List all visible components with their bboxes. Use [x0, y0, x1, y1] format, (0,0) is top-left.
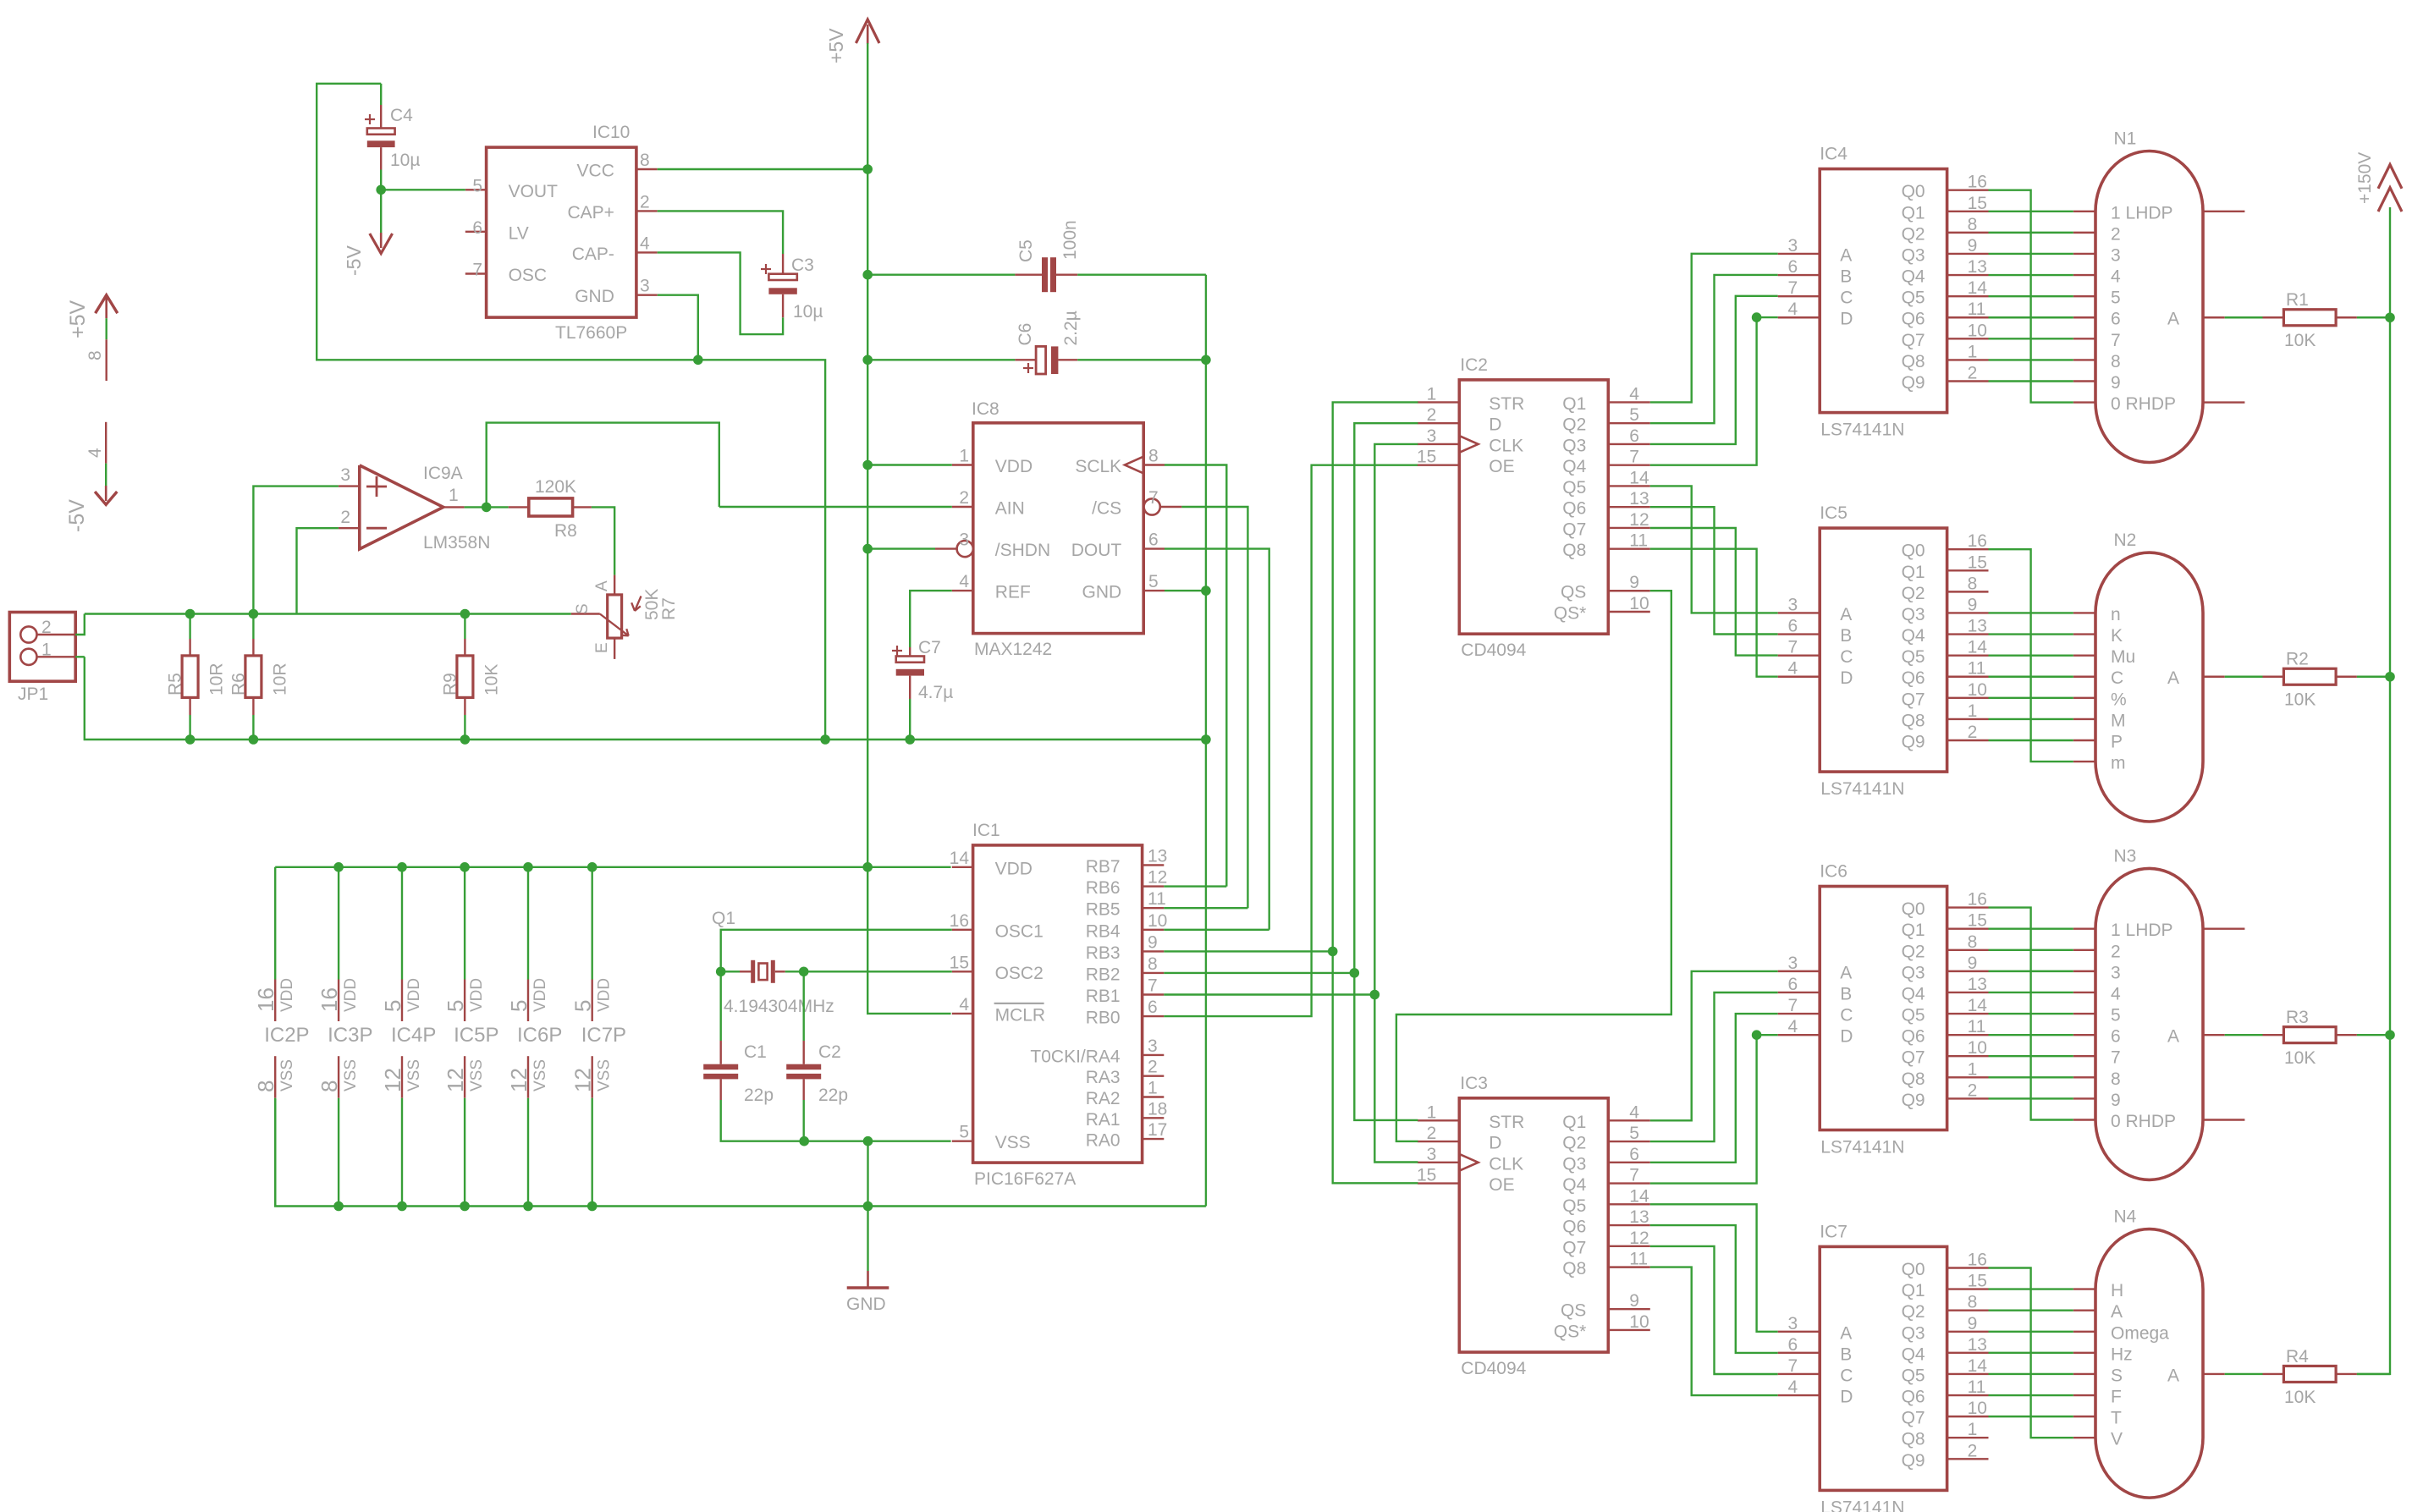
IC1 pin 10 RB4 — [1086, 911, 1168, 942]
IC5 pin 4 D — [1778, 659, 1853, 689]
svg-text:Q2: Q2 — [1562, 415, 1586, 435]
svg-text:Q8: Q8 — [1562, 541, 1586, 560]
svg-text:RB2: RB2 — [1086, 965, 1121, 984]
svg-text:OSC1: OSC1 — [995, 921, 1044, 941]
svg-text:8: 8 — [1968, 1293, 1978, 1312]
wire IC4.Q4 to N1 — [1989, 274, 2073, 276]
N1 pin 9 — [2073, 373, 2121, 393]
node Q1 right — [799, 967, 809, 977]
svg-text:/CS: /CS — [1092, 499, 1121, 519]
svg-text:4: 4 — [959, 572, 969, 591]
IC2 pin 14 Q5 — [1562, 468, 1650, 498]
svg-text:C: C — [1840, 1366, 1853, 1385]
wire IC2.Q8 to IC5.D — [1650, 549, 1778, 677]
wire IC6.Q8 to N3 — [1989, 1076, 2073, 1078]
N3 pin 2 — [2073, 942, 2121, 961]
N2 pin P — [2073, 733, 2123, 752]
node V3/C6 — [1201, 355, 1211, 366]
svg-text:Q5: Q5 — [1902, 1366, 1925, 1385]
svg-text:7: 7 — [1629, 1166, 1639, 1185]
svg-text:A: A — [2111, 1302, 2123, 1322]
svg-text:R3: R3 — [2286, 1008, 2309, 1027]
IC3 pin 11 Q8 — [1562, 1250, 1650, 1279]
svg-text:MCLR: MCLR — [995, 1005, 1046, 1025]
wire JP1 pin1 — [75, 656, 85, 657]
svg-text:E: E — [593, 642, 611, 653]
power symbol IC6P VSS pin 12 — [506, 1056, 549, 1206]
node rail-B/C7 — [905, 734, 915, 745]
svg-text:2: 2 — [1148, 1058, 1158, 1077]
svg-text:1: 1 — [1968, 1059, 1978, 1079]
svg-text:18: 18 — [1148, 1099, 1167, 1119]
resistor R1 10K — [2225, 290, 2390, 350]
svg-text:TL7660P: TL7660P — [555, 323, 627, 343]
wire IC5.Q4 to N2 — [1989, 633, 2073, 635]
node rail1/R6 — [249, 609, 259, 619]
N1 pin 4 — [2073, 267, 2121, 287]
IC6 pin 13 Q4 — [1902, 975, 1989, 1004]
svg-text:3: 3 — [340, 465, 350, 485]
svg-text:D: D — [1840, 310, 1853, 329]
IC1 pin 5 VSS — [952, 1123, 1031, 1153]
svg-text:IC3P: IC3P — [328, 1024, 372, 1047]
IC6 pin 6 B — [1778, 975, 1853, 1004]
svg-text:Q7: Q7 — [1562, 1238, 1586, 1257]
IC4 pin 16 Q0 — [1902, 173, 1989, 202]
svg-text:IC2: IC2 — [1460, 355, 1488, 375]
IC5 pin 2 Q9 — [1902, 723, 1989, 752]
wire +150V vertical — [2357, 207, 2390, 1374]
svg-text:V: V — [2111, 1430, 2123, 1449]
svg-text:11: 11 — [1968, 1377, 1986, 1397]
IC10 pin 5 VOUT — [465, 176, 558, 201]
IC5 pin 13 Q4 — [1902, 617, 1989, 646]
IC6 pin 9 Q3 — [1902, 954, 1989, 983]
IC7 pin 11 Q6 — [1902, 1377, 1989, 1407]
svg-text:13: 13 — [1968, 257, 1987, 277]
node rail-B/R6 — [249, 734, 259, 745]
svg-text:10: 10 — [1968, 321, 1987, 340]
resistor R5 10R — [166, 614, 227, 740]
IC2 pin 15 OE — [1417, 448, 1515, 477]
node VSS rail/IC7P — [587, 1201, 597, 1212]
IC2 pin 9 QS — [1561, 573, 1650, 602]
node RB1/riser — [1370, 990, 1380, 1000]
power symbol IC2P VDD pin 16 — [253, 867, 296, 1021]
node VSS/C2 junction — [799, 1136, 809, 1146]
svg-text:7: 7 — [1629, 448, 1639, 467]
svg-text:13: 13 — [1629, 489, 1649, 509]
IC box IC3 — [1459, 1074, 1608, 1378]
IC5 pin 9 Q3 — [1902, 595, 1989, 624]
IC4 pin 14 Q5 — [1902, 278, 1989, 308]
wire IC6.Q5 to N3 — [1989, 1013, 2073, 1014]
wire IC9A +in — [253, 487, 339, 614]
svg-text:3: 3 — [640, 277, 650, 296]
node VSS/GND-vert junction — [863, 1136, 873, 1146]
svg-text:8: 8 — [640, 151, 650, 170]
svg-text:7: 7 — [472, 261, 482, 280]
svg-text:1: 1 — [41, 640, 52, 659]
svg-text:R8: R8 — [554, 521, 577, 541]
IC6 pin 10 Q7 — [1902, 1038, 1989, 1068]
svg-text:PIC16F627A: PIC16F627A — [974, 1169, 1076, 1189]
wire C5 left — [867, 274, 1015, 276]
svg-text:5: 5 — [2111, 1006, 2121, 1025]
IC7 pin 15 Q1 — [1902, 1272, 1989, 1301]
IC7 pin 13 Q4 — [1902, 1335, 1989, 1365]
svg-text:D: D — [1489, 1134, 1501, 1153]
svg-text:IC3: IC3 — [1460, 1074, 1488, 1093]
wire IC8 DOUT riser — [1165, 549, 1269, 930]
svg-text:RB6: RB6 — [1086, 878, 1121, 898]
wire IC7.Q3 to N4 — [1989, 1331, 2073, 1333]
svg-text:10: 10 — [1968, 680, 1987, 700]
svg-text:16: 16 — [1968, 173, 1987, 192]
resistor R3 10K — [2225, 1008, 2390, 1068]
svg-text:Q0: Q0 — [1902, 1260, 1925, 1279]
svg-text:Q8: Q8 — [1902, 711, 1925, 730]
IC4 pin 1 Q8 — [1902, 342, 1989, 371]
svg-text:Q9: Q9 — [1902, 1451, 1925, 1471]
svg-text:QS: QS — [1561, 1301, 1586, 1321]
node +5V/C5 junction — [862, 270, 873, 280]
capacitor C4 10u — [365, 84, 420, 190]
svg-text:OSC2: OSC2 — [995, 964, 1044, 983]
svg-text:4: 4 — [1788, 300, 1798, 319]
svg-text:RB3: RB3 — [1086, 943, 1121, 963]
svg-text:13: 13 — [1629, 1207, 1649, 1227]
IC box IC6 — [1820, 862, 1947, 1157]
N2 pin M — [2073, 711, 2126, 730]
N3 LHDP right pin — [2203, 927, 2244, 929]
IC6 pin 15 Q1 — [1902, 911, 1989, 941]
svg-text:Q4: Q4 — [1562, 457, 1586, 476]
svg-text:15: 15 — [1968, 1272, 1987, 1291]
svg-text:14: 14 — [1968, 996, 1988, 1015]
svg-text:9: 9 — [1629, 1291, 1639, 1311]
IC9A pin 3 (+) — [339, 465, 360, 487]
wire IC5.Q9 to N2 — [1989, 740, 2073, 741]
svg-text:R7: R7 — [659, 597, 679, 620]
wire JP1 pin2 — [75, 614, 85, 635]
svg-text:N4: N4 — [2114, 1207, 2137, 1227]
svg-text:10: 10 — [1968, 1399, 1987, 1418]
svg-text:Q6: Q6 — [1902, 1027, 1925, 1047]
+150V power symbol — [2355, 152, 2402, 212]
wire IC3.Q2 to IC6.B — [1650, 992, 1778, 1141]
wire IC2 QS cascade to IC3 D — [1396, 591, 1671, 1141]
svg-text:14: 14 — [1968, 278, 1988, 298]
svg-text:1: 1 — [1968, 701, 1978, 721]
svg-text:IC9A: IC9A — [423, 464, 463, 483]
wire GND rail y=874 — [85, 657, 1206, 740]
IC2 pin 13 Q6 — [1562, 489, 1650, 519]
resistor R4 10K — [2225, 1347, 2390, 1407]
svg-text:4: 4 — [1788, 1377, 1798, 1397]
svg-text:B: B — [1840, 267, 1852, 287]
IC box IC5 — [1820, 503, 1947, 799]
IC6 pin 7 C — [1778, 996, 1853, 1025]
IC8 pin 2 AIN — [952, 488, 1025, 519]
svg-text:Q3: Q3 — [1562, 1154, 1586, 1174]
svg-text:Q8: Q8 — [1902, 352, 1925, 371]
svg-text:8: 8 — [85, 350, 105, 360]
wire IC4.Q0 to N1 RHDP — [1989, 190, 2073, 403]
N1 RHDP right pin — [2203, 401, 2244, 403]
N3 pin 7 — [2073, 1048, 2121, 1068]
svg-text:B: B — [1840, 1344, 1852, 1364]
svg-text:7: 7 — [2111, 331, 2121, 350]
wire IC5.Q0 to N2.m — [1989, 549, 2073, 761]
svg-text:S: S — [574, 603, 592, 614]
svg-text:2: 2 — [340, 508, 350, 527]
IC8 pin 5 GND — [1082, 572, 1165, 602]
node VSS rail/GND-sym — [863, 1201, 873, 1212]
svg-text:10µ: 10µ — [390, 151, 420, 170]
resistor R2 10K — [2225, 650, 2390, 710]
svg-text:C1: C1 — [744, 1042, 767, 1062]
IC6 pin 1 Q8 — [1902, 1059, 1989, 1089]
resistor R6 10R — [229, 614, 289, 740]
IC7 pin 16 Q0 — [1902, 1251, 1989, 1280]
svg-text:4.194304MHz: 4.194304MHz — [724, 997, 834, 1016]
IC IC8 box — [972, 399, 1143, 659]
svg-text:Q7: Q7 — [1902, 1409, 1925, 1428]
IC7 pin 1 Q8 — [1902, 1420, 1989, 1449]
node R2/+150V — [2385, 672, 2395, 682]
wire IC5.Q3 to N2 — [1989, 612, 2073, 613]
svg-text:IC7P: IC7P — [581, 1024, 626, 1047]
IC1 pin 18 RA1 — [1086, 1099, 1168, 1130]
IC1 pin 12 RB6 — [1086, 868, 1168, 899]
wire RB4 riser — [1164, 929, 1269, 931]
svg-text:12: 12 — [506, 1068, 531, 1092]
svg-text:6: 6 — [1629, 426, 1639, 446]
svg-text:Omega: Omega — [2111, 1323, 2169, 1343]
svg-text:12: 12 — [1629, 510, 1649, 530]
op-amp IC9A — [360, 464, 491, 553]
node R3/+150V — [2385, 1030, 2395, 1040]
wire IC3.Q3 to IC6.C — [1650, 1014, 1778, 1163]
svg-text:VDD: VDD — [468, 978, 486, 1012]
node RB2/riser — [1350, 968, 1360, 978]
wire IC2.Q2 to IC4.B — [1650, 275, 1778, 423]
svg-text:RA2: RA2 — [1086, 1089, 1121, 1108]
wire IC2.Q3 to IC4.C — [1650, 296, 1778, 444]
svg-text:5: 5 — [1629, 405, 1639, 425]
N3 pin A (anode) — [2167, 1027, 2225, 1047]
IC3 pin 1 STR — [1418, 1102, 1524, 1132]
wire IC5.Q5 to N2 — [1989, 654, 2073, 656]
+5V power symbol (top) — [825, 19, 879, 63]
node +5V/IC8-VDD — [862, 460, 873, 470]
svg-text:STR: STR — [1489, 394, 1524, 414]
svg-text:8: 8 — [2111, 352, 2121, 371]
capacitor C7 4.7u — [892, 638, 953, 740]
power symbol IC4P VSS pin 12 — [380, 1056, 423, 1206]
svg-text:2: 2 — [2111, 224, 2121, 244]
svg-text:Q3: Q3 — [1902, 963, 1925, 982]
svg-text:6: 6 — [1148, 531, 1159, 550]
svg-text:9: 9 — [1968, 1314, 1978, 1333]
svg-text:3: 3 — [1788, 236, 1798, 256]
svg-text:16: 16 — [317, 987, 342, 1012]
svg-text:N2: N2 — [2114, 531, 2137, 550]
svg-text:12: 12 — [1629, 1229, 1649, 1248]
svg-text:RB5: RB5 — [1086, 900, 1121, 920]
node rail1/R9 — [460, 609, 471, 619]
power symbol IC7P VDD pin 5 — [570, 867, 614, 1021]
svg-text:/SHDN: /SHDN — [995, 541, 1050, 560]
wire IC8 /SHDN — [867, 547, 935, 549]
svg-text:9: 9 — [1148, 932, 1158, 952]
wire IC3.Q7 to IC7.C — [1650, 1246, 1778, 1374]
svg-text:QS*: QS* — [1554, 1322, 1587, 1341]
IC3 pin 13 Q6 — [1562, 1207, 1650, 1237]
svg-text:8: 8 — [1968, 932, 1978, 952]
svg-text:Q3: Q3 — [1562, 436, 1586, 455]
svg-text:RA0: RA0 — [1086, 1131, 1121, 1151]
svg-text:Q2: Q2 — [1902, 942, 1925, 961]
svg-text:Q3: Q3 — [1902, 245, 1925, 265]
IC4 pin 4 D — [1778, 300, 1853, 329]
svg-text:LS74141N: LS74141N — [1820, 421, 1904, 440]
svg-text:IC4: IC4 — [1820, 145, 1848, 164]
node rail-B/R9 — [460, 734, 471, 745]
svg-text:120K: 120K — [535, 477, 576, 497]
svg-text:-5V: -5V — [65, 499, 89, 532]
svg-text:Q1: Q1 — [1902, 563, 1925, 582]
-5V power symbol (IC9 pin 4) — [65, 422, 117, 532]
svg-text:1: 1 — [1148, 1079, 1158, 1098]
svg-text:Q6: Q6 — [1902, 310, 1925, 329]
IC IC10 box — [487, 123, 636, 343]
wire C5 right — [1077, 274, 1206, 276]
IC box IC4 — [1820, 145, 1947, 440]
svg-text:VDD: VDD — [405, 978, 423, 1012]
svg-text:Hz: Hz — [2111, 1344, 2133, 1364]
svg-text:RB4: RB4 — [1086, 921, 1121, 941]
svg-text:3: 3 — [1427, 1145, 1437, 1164]
capacitor C1 22p — [703, 971, 774, 1105]
svg-text:10: 10 — [1968, 1038, 1987, 1058]
svg-text:IC6: IC6 — [1820, 862, 1848, 882]
IC10 pin 4 CAP- — [572, 234, 658, 264]
wire VSS row to GND symbol — [721, 1100, 951, 1271]
IC4 pin 3 A — [1778, 236, 1853, 266]
node R1/+150V — [2385, 312, 2395, 322]
N4 pin Hz — [2073, 1344, 2133, 1364]
svg-text:CD4094: CD4094 — [1461, 641, 1526, 660]
svg-text:2: 2 — [959, 488, 969, 508]
wire IC6.Q1 to N3 — [1989, 927, 2073, 929]
svg-text:4: 4 — [1629, 1102, 1639, 1122]
node VSS rail/IC6P — [523, 1201, 533, 1212]
svg-text:VDD: VDD — [596, 978, 614, 1012]
svg-text:11: 11 — [1148, 889, 1166, 909]
N3 pin 5 — [2073, 1006, 2121, 1025]
svg-text:m: m — [2111, 754, 2126, 773]
svg-text:VSS: VSS — [405, 1059, 423, 1091]
svg-text:Q8: Q8 — [1902, 1069, 1925, 1089]
svg-text:7: 7 — [1788, 278, 1798, 298]
IC5 pin 16 Q0 — [1902, 531, 1989, 561]
IC2 pin 6 Q3 — [1562, 426, 1650, 456]
svg-text:VCC: VCC — [577, 162, 614, 181]
IC6 pin 4 D — [1778, 1017, 1853, 1047]
svg-text:16: 16 — [1968, 890, 1987, 910]
svg-text:10K: 10K — [2284, 331, 2316, 350]
svg-text:CLK: CLK — [1489, 436, 1523, 455]
svg-text:n: n — [2111, 605, 2121, 624]
IC1 pin 13 RB7 — [1086, 846, 1168, 877]
svg-text:8: 8 — [1968, 215, 1978, 234]
wire IC3.Q5 to IC7.A — [1650, 1204, 1778, 1332]
svg-text:10K: 10K — [2284, 1048, 2316, 1068]
svg-text:12: 12 — [443, 1068, 468, 1092]
node Q1 left — [716, 967, 726, 977]
wire GND vertical x=1425 (C5 corner down to rail C) — [1205, 275, 1207, 1207]
IC box IC7 — [1820, 1222, 1947, 1512]
wire IC4.Q6 to N1 — [1989, 316, 2073, 318]
svg-text:10: 10 — [1629, 594, 1649, 613]
svg-text:OE: OE — [1489, 457, 1514, 476]
svg-text:2: 2 — [1968, 1441, 1978, 1460]
svg-text:11: 11 — [1968, 300, 1986, 319]
nixie tube N1 body — [2095, 129, 2203, 463]
wire IC8 /CS riser — [1181, 507, 1247, 908]
svg-text:3: 3 — [2111, 963, 2121, 982]
capacitor C3 10u — [761, 254, 823, 322]
power symbol IC5P label — [454, 1024, 498, 1047]
IC5 pin 3 A — [1778, 595, 1853, 624]
svg-text:6: 6 — [1629, 1145, 1639, 1164]
IC4 pin 15 Q1 — [1902, 194, 1989, 223]
IC7 pin 10 Q7 — [1902, 1399, 1989, 1428]
N1 pin 2 — [2073, 224, 2121, 244]
IC8 pin 4 REF — [952, 572, 1031, 602]
svg-text:2: 2 — [640, 192, 650, 212]
wire RB1 — [1164, 993, 1374, 995]
svg-text:5: 5 — [443, 1000, 468, 1012]
svg-text:K: K — [2111, 626, 2123, 646]
svg-text:Q3: Q3 — [1902, 1323, 1925, 1343]
svg-text:15: 15 — [950, 953, 969, 972]
N2 pin % — [2073, 690, 2127, 709]
svg-text:IC1: IC1 — [972, 821, 1000, 840]
wire IC6.Q6 to N3 — [1989, 1034, 2073, 1036]
svg-text:10: 10 — [1629, 1312, 1649, 1332]
wire C6 right — [1077, 359, 1206, 360]
node rail-B/R5 — [185, 734, 195, 745]
IC1 pin 15 OSC2 — [950, 953, 1044, 983]
svg-text:4: 4 — [640, 234, 650, 253]
wire IC6.Q2 to N3 — [1989, 949, 2073, 951]
wire IC2 STR riser (to IC3 OE) — [1333, 402, 1418, 1183]
svg-text:RB1: RB1 — [1086, 987, 1121, 1006]
IC7 pin 14 Q5 — [1902, 1356, 1989, 1386]
svg-text:GND: GND — [1082, 583, 1122, 602]
N3 pin 9 — [2073, 1091, 2121, 1110]
svg-text:6: 6 — [1788, 975, 1798, 994]
wire rail y=725.5 — [85, 613, 571, 614]
svg-text:Q7: Q7 — [1562, 520, 1586, 539]
N2 pin m — [2073, 754, 2126, 773]
svg-text:R5: R5 — [166, 673, 185, 696]
wire R8 to R7.A — [592, 507, 614, 575]
wire IC2 CLK riser (to IC3 CLK) — [1374, 444, 1418, 1163]
